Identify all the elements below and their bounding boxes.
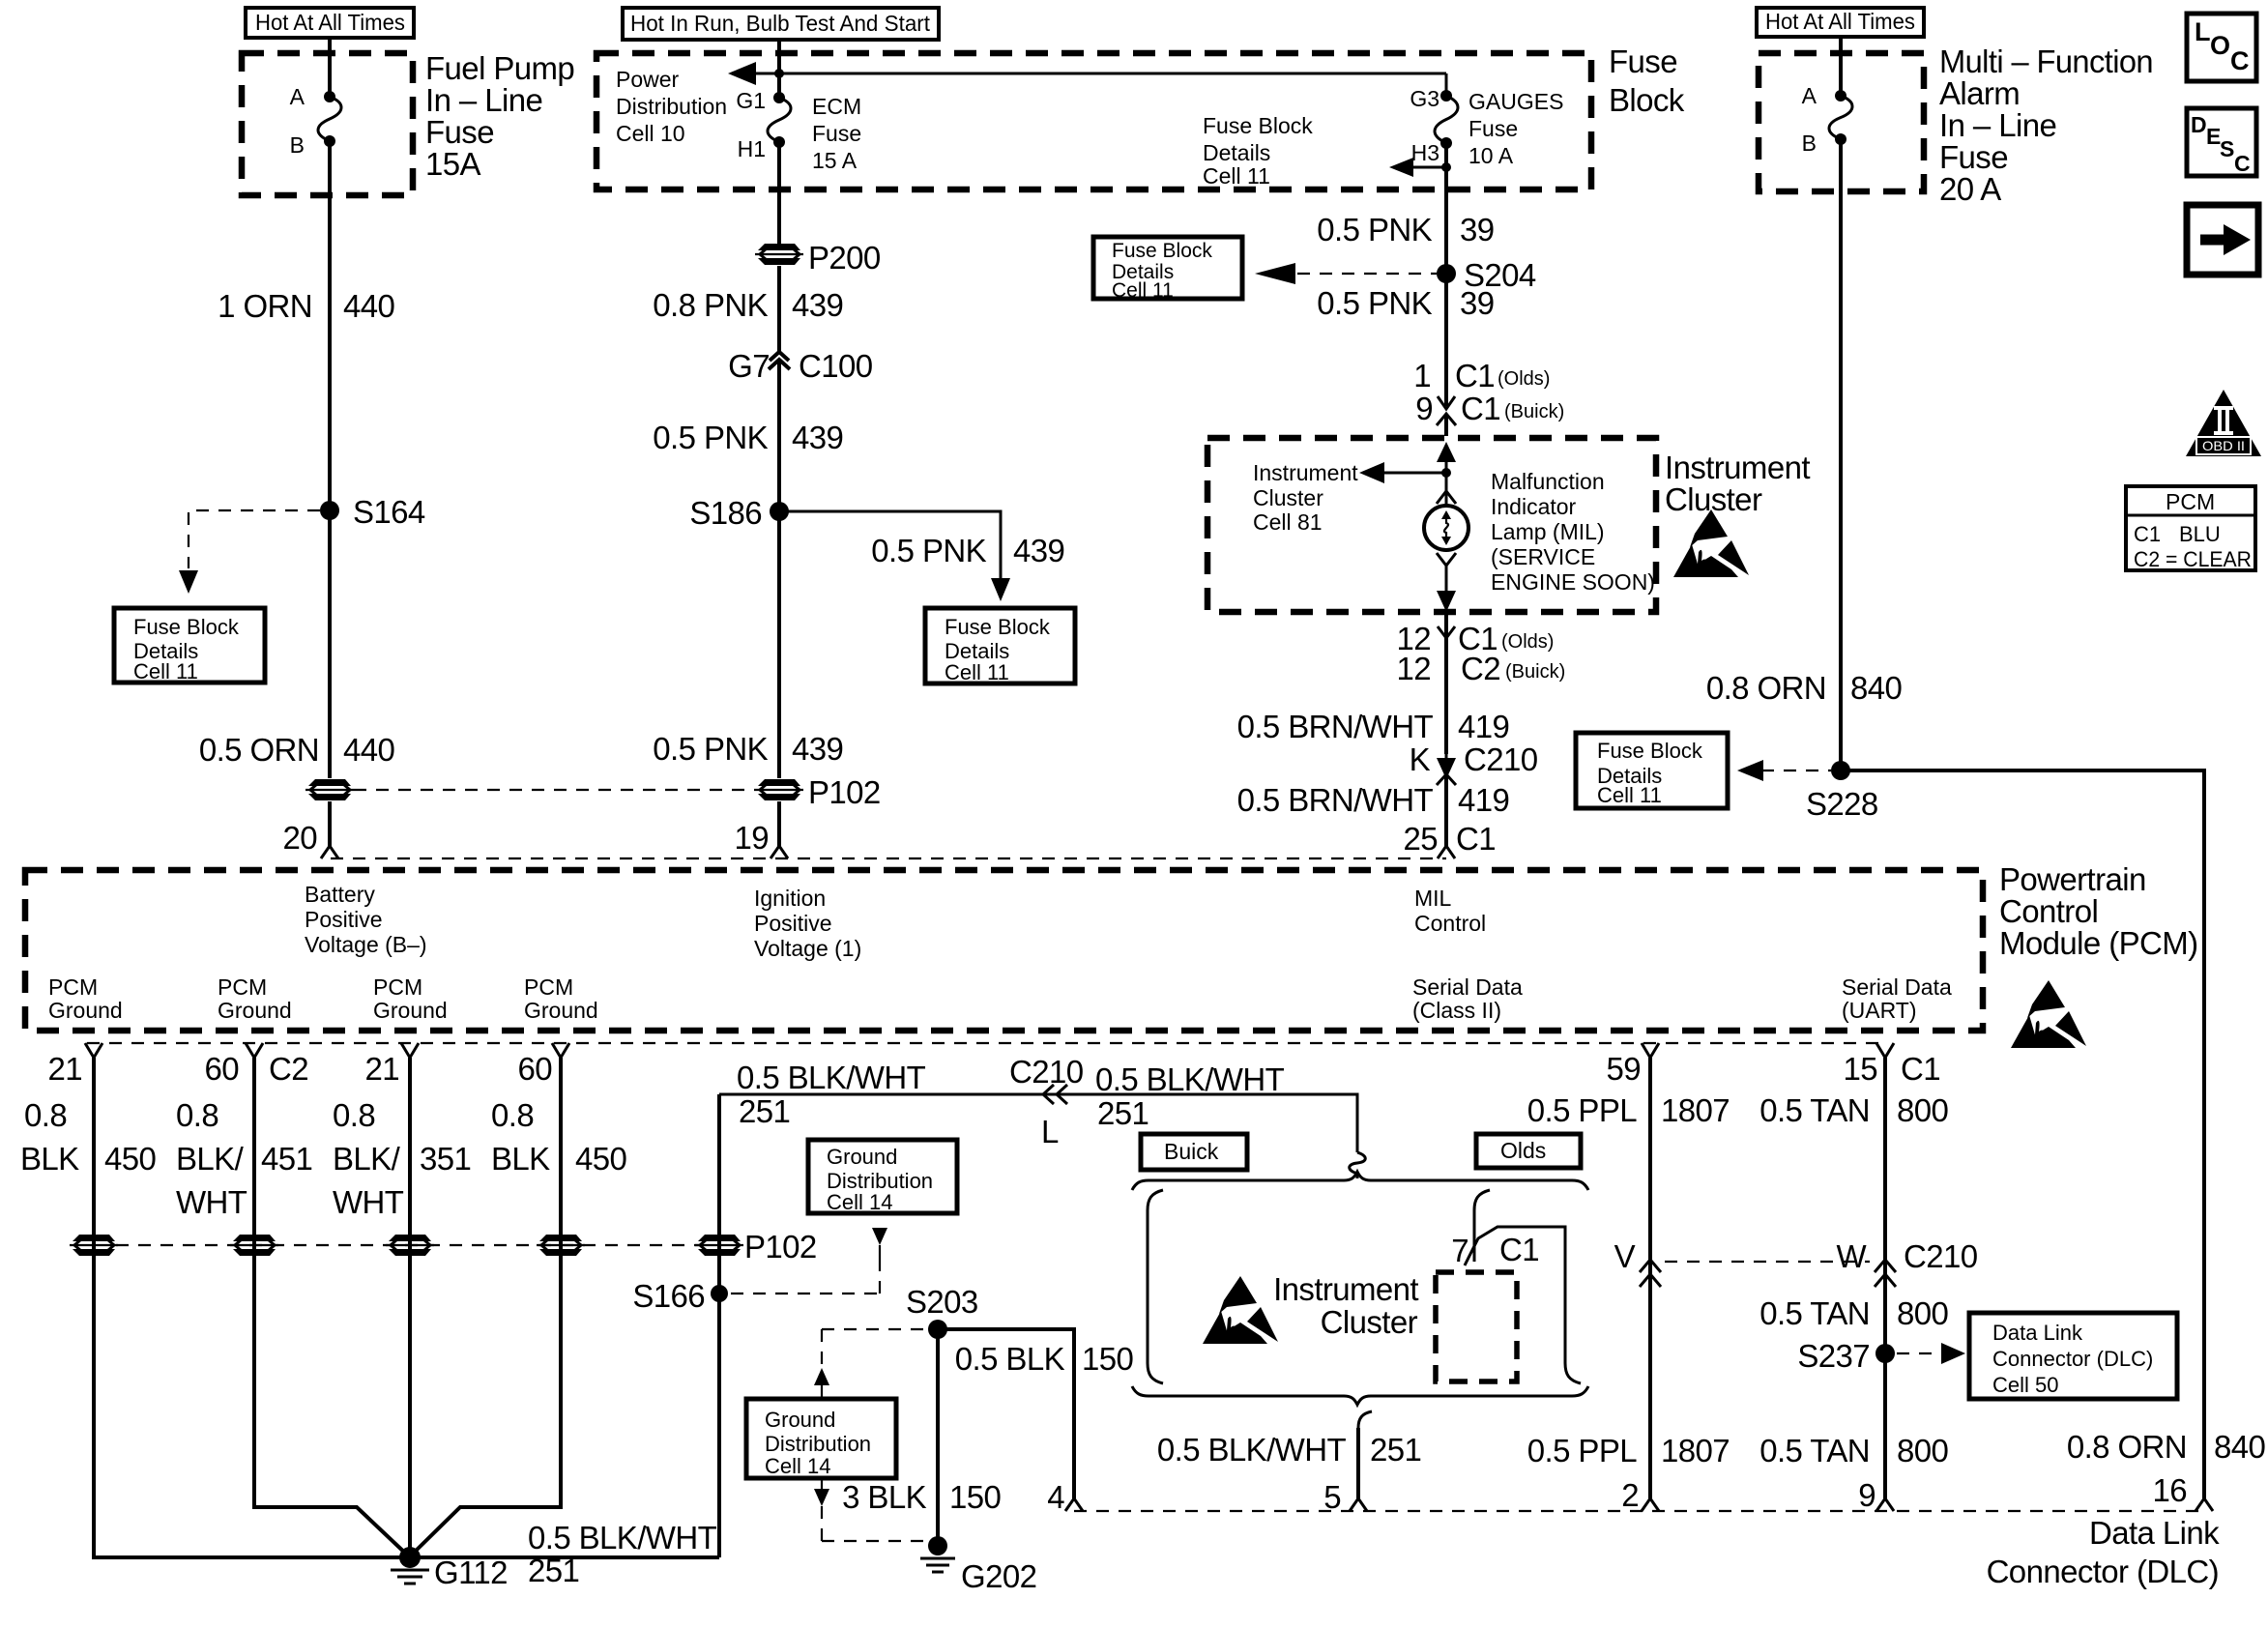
svg-text:0.5 PPL: 0.5 PPL <box>1527 1092 1637 1128</box>
svg-text:W: W <box>1836 1238 1867 1274</box>
wire S228 to DLC pin 16 <box>1841 770 2204 1498</box>
svg-text:Cluster: Cluster <box>1321 1304 1418 1340</box>
wire S186 down to P102 <box>777 511 781 778</box>
wire label 1 ORN 440 <box>218 288 394 324</box>
label Multi-Function Alarm In-Line Fuse 20 A <box>1939 44 2153 207</box>
ESD symbol (PCM) <box>2011 980 2086 1048</box>
branch wire label 0.5 PNK 439 <box>871 533 1064 568</box>
pin 21 chevron col1 <box>47 1043 102 1087</box>
wire from Hot At All Times to fuse A <box>328 38 332 97</box>
wire label 0.5 PNK 439 <box>653 420 843 455</box>
wire label 3 BLK 150 <box>842 1479 1001 1515</box>
svg-text:Ground: Ground <box>827 1145 897 1169</box>
fuse F1 terminal B <box>290 132 335 158</box>
svg-text:419: 419 <box>1458 709 1509 744</box>
svg-text:ECM: ECM <box>812 94 861 119</box>
ground junction G202 <box>920 1536 1036 1594</box>
svg-text:Fuse Block: Fuse Block <box>133 615 240 639</box>
svg-text:(Class II): (Class II) <box>1412 998 1501 1023</box>
wire label 0.8 BLK/WHT 451 col2 <box>176 1097 312 1220</box>
splice S203 <box>906 1284 978 1339</box>
wire ECM fuse H1 down to P200 <box>777 142 781 244</box>
svg-text:Cell 11: Cell 11 <box>1597 783 1662 807</box>
svg-text:(Buick): (Buick) <box>1505 661 1565 683</box>
svg-text:Powertrain: Powertrain <box>1999 861 2146 897</box>
pass-through connector col4 <box>537 1235 585 1256</box>
svg-text:S166: S166 <box>632 1278 705 1314</box>
splice S164 <box>320 494 425 530</box>
svg-text:Hot At All Times: Hot At All Times <box>255 10 405 35</box>
pass-through connector P200 <box>755 240 881 276</box>
svg-text:BLU: BLU <box>2179 522 2221 546</box>
pass-through connector col2 <box>230 1235 278 1256</box>
svg-text:15A: 15A <box>425 146 481 182</box>
svg-text:S186: S186 <box>689 495 762 531</box>
option brace top (Buick/Olds) <box>1132 1172 1588 1190</box>
svg-text:4: 4 <box>1047 1479 1064 1515</box>
connector C100 G7 chevrons <box>728 348 873 384</box>
dashed reference S204 to Fuse Block Details <box>1255 263 1437 284</box>
svg-text:C: C <box>2234 151 2251 176</box>
svg-text:P102: P102 <box>808 774 881 810</box>
svg-text:Hot In Run, Bulb Test And Star: Hot In Run, Bulb Test And Start <box>630 11 931 36</box>
svg-text:(Olds): (Olds) <box>1497 368 1550 390</box>
svg-text:(Olds): (Olds) <box>1501 631 1554 653</box>
text Battery Positive Voltage (B-) <box>305 882 427 957</box>
wire label 0.5 PNK 39 lower <box>1317 285 1494 321</box>
svg-text:16: 16 <box>2152 1472 2187 1508</box>
svg-text:H3: H3 <box>1411 140 1439 165</box>
svg-text:Ground: Ground <box>765 1408 835 1432</box>
svg-text:V: V <box>1614 1238 1636 1274</box>
ground wire col1 <box>94 1058 410 1557</box>
branch wire S186 to Fuse Block Details arrow <box>779 511 1010 601</box>
svg-text:439: 439 <box>792 420 843 455</box>
svg-text:0.5 PNK: 0.5 PNK <box>1317 285 1432 321</box>
pin 9 C1 (Buick) label <box>1415 391 1564 426</box>
label Instrument Cluster (top) <box>1665 450 1810 517</box>
wire break squiggle <box>1350 1152 1366 1178</box>
lamp lower chevron <box>1437 553 1456 566</box>
svg-text:B: B <box>1802 131 1817 156</box>
svg-text:150: 150 <box>1082 1341 1134 1377</box>
svg-text:Fuse: Fuse <box>1939 139 2008 175</box>
connector C210 pin V chevrons <box>1614 1238 1661 1287</box>
svg-text:Voltage (1): Voltage (1) <box>754 936 861 961</box>
pin 9 label <box>1858 1477 1875 1513</box>
instrument cluster dashed box <box>1207 438 1656 612</box>
GAUGES fuse terminal G3 <box>1410 86 1452 111</box>
pin 21 chevron col3 <box>364 1043 419 1087</box>
pin 12 C2 (Buick) label <box>1396 651 1565 686</box>
svg-text:PCM: PCM <box>48 974 98 1000</box>
svg-text:1: 1 <box>1413 358 1431 393</box>
ECM fuse terminal H1 <box>738 136 785 161</box>
text ECM Fuse 15 A <box>812 94 861 173</box>
ground wire col3 <box>408 1058 412 1557</box>
svg-text:7: 7 <box>1451 1233 1468 1268</box>
wire label 0.8 ORN 840 <box>1706 670 1903 706</box>
connector C210 pin W chevrons <box>1836 1238 1977 1287</box>
svg-text:C1: C1 <box>1456 821 1496 857</box>
text Fuse Block Details Cell 11 (inside fuse block) <box>1203 113 1313 189</box>
DLC dashed connector face line <box>1074 1510 2204 1512</box>
label Powertrain Control Module (PCM) <box>1999 861 2198 961</box>
svg-text:Distribution: Distribution <box>765 1432 871 1456</box>
wire connector to PCM pin 20 <box>328 801 332 847</box>
label Data Link Connector (DLC) <box>1987 1515 2221 1589</box>
label Instrument Cluster (bottom) <box>1273 1271 1418 1340</box>
svg-text:C1: C1 <box>1901 1051 1940 1087</box>
wire S203 to DLC pin 4 <box>938 1329 1074 1498</box>
svg-text:21: 21 <box>47 1051 82 1087</box>
wire H3 down <box>1444 143 1448 189</box>
connector label 7 C1 (Olds inner) <box>1451 1232 1539 1268</box>
svg-text:0.8: 0.8 <box>333 1097 375 1133</box>
wire C100 to S186 <box>777 362 781 511</box>
wire from Hot box to fuse A <box>1839 37 1843 96</box>
MIL lamp symbol <box>1424 506 1468 550</box>
GAUGES fuse terminal H3 <box>1411 137 1452 165</box>
svg-text:Hot At All Times: Hot At All Times <box>1765 9 1915 34</box>
fuel pump in-line fuse dashed box <box>242 53 413 195</box>
pin 4 label <box>1047 1479 1064 1515</box>
svg-text:60: 60 <box>204 1051 239 1087</box>
svg-text:Ground: Ground <box>218 998 292 1023</box>
DLC pin chevron 16 <box>2195 1498 2213 1511</box>
svg-text:Olds: Olds <box>1500 1138 1546 1163</box>
pin 15 C1 chevron <box>1843 1043 1940 1087</box>
svg-text:Block: Block <box>1609 82 1685 118</box>
svg-text:25: 25 <box>1403 821 1438 857</box>
ground wire col4 <box>410 1058 561 1556</box>
svg-text:S237: S237 <box>1797 1338 1870 1374</box>
svg-text:150: 150 <box>949 1479 1002 1515</box>
svg-text:39: 39 <box>1460 285 1495 321</box>
text PCM Ground 1 <box>48 974 123 1023</box>
svg-text:0.5 TAN: 0.5 TAN <box>1759 1092 1870 1128</box>
svg-text:C2: C2 <box>269 1051 308 1087</box>
svg-text:19: 19 <box>734 820 769 856</box>
svg-text:Fuse Block: Fuse Block <box>1203 113 1313 138</box>
wire into instrument cluster <box>1444 414 1448 436</box>
pass-through connector (fuel pump harness) <box>305 779 354 800</box>
svg-text:C210: C210 <box>1464 741 1538 777</box>
svg-text:Cell 14: Cell 14 <box>765 1454 830 1478</box>
connector C1 chevrons (9 C1) <box>1437 396 1456 425</box>
svg-text:0.5 BLK/WHT: 0.5 BLK/WHT <box>528 1520 717 1555</box>
text Malfunction Indicator Lamp (MIL) (SERVICE ENGINE SOON) <box>1491 469 1655 595</box>
svg-text:S228: S228 <box>1806 786 1878 822</box>
svg-text:39: 39 <box>1460 212 1495 247</box>
fuse block dashed box <box>596 53 1591 189</box>
alarm fuse terminal A <box>1802 83 1846 108</box>
svg-text:451: 451 <box>261 1141 312 1177</box>
svg-text:(SERVICE: (SERVICE <box>1491 544 1595 569</box>
arrow to Instrument Cluster Cell 81 <box>1359 462 1446 483</box>
svg-text:G112: G112 <box>434 1555 508 1590</box>
svg-text:Fuse Block: Fuse Block <box>1112 240 1212 262</box>
svg-text:0.5 PNK: 0.5 PNK <box>1317 212 1432 247</box>
wire P102 to PCM pin 19 <box>777 801 781 847</box>
inner dashed box (Olds cluster connector) <box>1436 1272 1517 1381</box>
wire label 0.5 BRN/WHT 419 <box>1237 709 1510 744</box>
svg-text:1 ORN: 1 ORN <box>218 288 312 324</box>
GAUGES fuse element <box>1435 96 1458 143</box>
svg-text:1807: 1807 <box>1661 1092 1730 1128</box>
svg-text:0.5 BLK/WHT: 0.5 BLK/WHT <box>737 1060 926 1095</box>
svg-text:5: 5 <box>1323 1479 1341 1515</box>
wire label 0.5 TAN 800 (lower) <box>1759 1433 1948 1468</box>
icon box LOC <box>2187 14 2256 81</box>
feed corner to GAUGES fuse <box>1445 73 1448 96</box>
wire label 0.5 BLK 150 <box>955 1341 1134 1377</box>
svg-text:800: 800 <box>1897 1295 1949 1331</box>
svg-text:Fuse Block: Fuse Block <box>945 615 1051 639</box>
svg-text:10 A: 10 A <box>1468 143 1514 168</box>
svg-text:15: 15 <box>1843 1051 1877 1087</box>
option label box Olds <box>1476 1134 1581 1168</box>
svg-text:Ground: Ground <box>48 998 123 1023</box>
svg-text:Distribution: Distribution <box>616 94 727 119</box>
DLC pin chevron 4 <box>1065 1498 1083 1511</box>
text Instrument Cluster Cell 81 <box>1253 460 1358 535</box>
svg-text:840: 840 <box>2214 1429 2266 1465</box>
svg-text:351: 351 <box>420 1141 471 1177</box>
svg-text:In – Line: In – Line <box>425 82 542 118</box>
svg-text:Buick: Buick <box>1164 1139 1219 1164</box>
svg-text:9: 9 <box>1858 1477 1875 1513</box>
pin 2 label <box>1621 1477 1639 1513</box>
dashed connector face line below PCM <box>87 1042 1885 1044</box>
svg-text:Battery: Battery <box>305 882 375 907</box>
ground junction G112 <box>391 1547 508 1590</box>
pin 59 chevron <box>1606 1043 1659 1087</box>
pass-through connector P102 (ignition feed) <box>755 774 881 810</box>
svg-text:G1: G1 <box>736 88 766 113</box>
reference box Data Link Connector (DLC) Cell 50 <box>1969 1313 2177 1399</box>
svg-text:Module (PCM): Module (PCM) <box>1999 925 2198 961</box>
svg-text:ENGINE SOON): ENGINE SOON) <box>1491 569 1655 595</box>
svg-text:G3: G3 <box>1410 86 1439 111</box>
wire label 0.8 BLK 450 col1 <box>20 1097 157 1177</box>
wire S166 vertical <box>717 1094 721 1557</box>
wire GAUGES fuse to S204 <box>1444 189 1448 274</box>
svg-text:60: 60 <box>517 1051 552 1087</box>
svg-text:0.8 PNK: 0.8 PNK <box>653 287 768 323</box>
svg-text:C1: C1 <box>1455 358 1495 393</box>
svg-text:0.5 TAN: 0.5 TAN <box>1759 1295 1870 1331</box>
svg-text:(Buick): (Buick) <box>1504 401 1564 422</box>
svg-text:20: 20 <box>282 820 317 856</box>
svg-text:450: 450 <box>104 1141 157 1177</box>
svg-text:0.5 BRN/WHT: 0.5 BRN/WHT <box>1237 709 1434 744</box>
svg-text:251: 251 <box>739 1093 790 1129</box>
svg-text:Instrument: Instrument <box>1253 460 1358 485</box>
svg-text:3 BLK: 3 BLK <box>842 1479 926 1515</box>
svg-text:251: 251 <box>1370 1432 1421 1468</box>
svg-text:B: B <box>290 132 305 158</box>
dashed connector line V to W <box>1665 1261 1870 1263</box>
MIL feed up-arrow inside cluster <box>1437 442 1456 473</box>
ESD symbol (instrument cluster top) <box>1673 509 1749 577</box>
svg-text:GAUGES: GAUGES <box>1468 89 1563 114</box>
svg-text:0.5 BLK: 0.5 BLK <box>955 1341 1065 1377</box>
text Power Distribution Cell 10 <box>616 67 727 146</box>
text GAUGES Fuse 10 A <box>1468 89 1563 168</box>
pin 16 label <box>2152 1472 2187 1508</box>
svg-text:G202: G202 <box>961 1558 1036 1594</box>
svg-text:840: 840 <box>1850 670 1903 706</box>
serial data class II wire <box>1648 1058 1652 1498</box>
svg-text:P102: P102 <box>744 1229 817 1265</box>
svg-text:C210: C210 <box>1904 1238 1978 1274</box>
svg-text:A: A <box>290 84 305 109</box>
fuse F1 element <box>318 97 341 141</box>
svg-text:WHT: WHT <box>333 1184 404 1220</box>
svg-text:Ground: Ground <box>373 998 448 1023</box>
text MIL Control <box>1414 886 1486 936</box>
svg-text:Control: Control <box>1999 893 2098 929</box>
wire G112 to S166 branch <box>410 1555 719 1559</box>
svg-text:P200: P200 <box>808 240 881 276</box>
svg-text:C100: C100 <box>799 348 873 384</box>
svg-text:Fuse Block: Fuse Block <box>1597 739 1703 763</box>
svg-text:Data Link: Data Link <box>1992 1321 2083 1345</box>
pin 19 label <box>734 820 769 856</box>
splice S237 <box>1797 1338 1895 1374</box>
svg-text:800: 800 <box>1897 1092 1949 1128</box>
svg-text:Cell 11: Cell 11 <box>1203 163 1270 189</box>
label box Hot At All Times (right) <box>1757 8 1924 37</box>
svg-text:251: 251 <box>1097 1095 1149 1131</box>
svg-text:Fuse: Fuse <box>1609 44 1677 79</box>
junction dot feed line <box>774 69 784 78</box>
svg-text:Fuel Pump: Fuel Pump <box>425 50 574 86</box>
svg-text:0.5 BLK/WHT: 0.5 BLK/WHT <box>1157 1432 1347 1468</box>
DLC pin chevron 5 <box>1350 1498 1367 1511</box>
legend box PCM C1 BLU C2=CLEAR <box>2126 486 2255 571</box>
wire label 0.5 BRN/WHT 419 lower <box>1237 782 1510 818</box>
svg-text:439: 439 <box>792 731 843 767</box>
svg-text:0.8: 0.8 <box>176 1097 218 1133</box>
dashed line between P102 pass-throughs <box>354 789 755 791</box>
option bracket right (Olds path) <box>1465 1190 1581 1383</box>
svg-text:Indicator: Indicator <box>1491 494 1577 519</box>
svg-text:PCM: PCM <box>2166 489 2215 514</box>
pin 5 label <box>1323 1479 1341 1515</box>
svg-text:BLK/: BLK/ <box>333 1141 401 1177</box>
svg-text:Cell 11: Cell 11 <box>945 660 1009 684</box>
label box Hot In Run, Bulb Test And Start <box>623 8 939 40</box>
dashed connector face line pins 20-19-25 <box>331 858 1446 859</box>
svg-text:Cell 10: Cell 10 <box>616 121 685 146</box>
svg-text:BLK/: BLK/ <box>176 1141 245 1177</box>
reference box Ground Distribution Cell 14 (upper) <box>808 1140 957 1214</box>
multi-function alarm fuse dashed box <box>1759 53 1924 191</box>
svg-text:O: O <box>2210 31 2230 60</box>
svg-text:439: 439 <box>1013 533 1064 568</box>
svg-text:450: 450 <box>575 1141 627 1177</box>
wire label 0.5 PPL 1807 (upper) <box>1527 1092 1730 1128</box>
svg-text:0.5 BRN/WHT: 0.5 BRN/WHT <box>1237 782 1434 818</box>
svg-text:Control: Control <box>1414 911 1486 936</box>
dashed reference S228 to Fuse Block Details <box>1737 760 1831 781</box>
svg-text:S203: S203 <box>906 1284 978 1320</box>
svg-text:Connector (DLC): Connector (DLC) <box>1987 1554 2219 1589</box>
svg-text:20 A: 20 A <box>1939 171 2001 207</box>
svg-text:C1: C1 <box>1499 1232 1539 1267</box>
wire label 0.5 PNK 39 <box>1317 212 1494 247</box>
wire label 0.5 BLK/WHT 251 (pin 5) <box>1157 1432 1421 1468</box>
svg-text:800: 800 <box>1897 1433 1949 1468</box>
svg-text:0.5 PNK: 0.5 PNK <box>871 533 986 568</box>
DLC pin chevron 2 <box>1642 1498 1659 1511</box>
wire PCM 251 horizontal to cluster <box>719 1094 1357 1152</box>
svg-text:Cluster: Cluster <box>1665 481 1762 517</box>
svg-text:9: 9 <box>1415 391 1433 426</box>
serial data UART wire <box>1883 1058 1887 1498</box>
svg-text:Data Link: Data Link <box>2089 1515 2220 1551</box>
svg-text:WHT: WHT <box>176 1184 247 1220</box>
feed line to Power Distribution arrow <box>728 62 1446 85</box>
wire label 0.5 PNK 439 lower <box>653 731 843 767</box>
svg-text:0.5 ORN: 0.5 ORN <box>199 732 319 768</box>
option brace bottom <box>1132 1386 1588 1405</box>
svg-text:Cell 81: Cell 81 <box>1253 509 1323 535</box>
reference box Fuse Block Details Cell 11 (center) <box>925 608 1075 684</box>
svg-text:439: 439 <box>792 287 843 323</box>
wire C210 K to PCM pin 25 <box>1444 776 1448 847</box>
wire brace to DLC pin 5 <box>1358 1411 1372 1498</box>
svg-text:Ground: Ground <box>524 998 598 1023</box>
svg-text:0.8 ORN: 0.8 ORN <box>1706 670 1826 706</box>
svg-text:C1: C1 <box>2134 522 2161 546</box>
reference box Fuse Block Details Cell 11 (fuse col) <box>1093 237 1242 302</box>
svg-text:Serial Data: Serial Data <box>1412 974 1523 1000</box>
svg-text:Alarm: Alarm <box>1939 75 2020 111</box>
svg-text:L: L <box>1041 1114 1059 1149</box>
svg-text:440: 440 <box>343 288 395 324</box>
svg-text:0.8: 0.8 <box>24 1097 67 1133</box>
connector C210 pin L chevrons <box>1009 1054 1084 1149</box>
svg-text:Cell 50: Cell 50 <box>1992 1373 2058 1397</box>
svg-text:Multi – Function: Multi – Function <box>1939 44 2153 79</box>
alarm fuse terminal B <box>1802 131 1846 156</box>
label box Hot At All Times (left) <box>246 8 414 38</box>
reference box Ground Distribution Cell 14 (lower) <box>746 1399 896 1478</box>
DLC pin chevron 9 <box>1876 1498 1894 1511</box>
wire dot to lamp <box>1445 473 1448 506</box>
label Fuel Pump In-Line Fuse 15A <box>425 50 574 182</box>
svg-text:C2: C2 <box>1461 651 1500 686</box>
MIL output down-arrow <box>1437 566 1456 612</box>
fuse F1 terminal A <box>290 84 335 109</box>
svg-text:H1: H1 <box>738 136 766 161</box>
svg-text:In – Line: In – Line <box>1939 107 2056 143</box>
wire fuse B down to S228 <box>1839 139 1843 770</box>
svg-text:(UART): (UART) <box>1842 998 1917 1023</box>
wire label 0.5 ORN 440 <box>199 732 395 768</box>
text Serial Data (UART) <box>1842 974 1952 1023</box>
svg-text:0.8: 0.8 <box>491 1097 534 1133</box>
svg-text:OBD II: OBD II <box>2202 438 2245 453</box>
wire cluster output <box>1444 612 1448 754</box>
svg-text:C2 = CLEAR: C2 = CLEAR <box>2134 547 2252 571</box>
svg-text:S: S <box>2220 136 2234 161</box>
svg-text:0.5 TAN: 0.5 TAN <box>1759 1433 1870 1468</box>
pin 25 chevron <box>1438 846 1455 858</box>
